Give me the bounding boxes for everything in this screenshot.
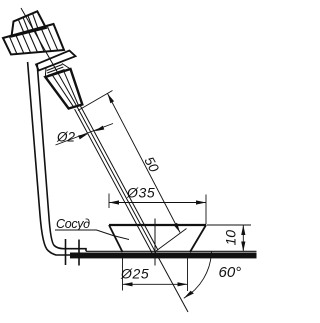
dim Ф25 extension right bbox=[187, 257, 189, 291]
dim 10 line bbox=[242, 225, 244, 252]
dim 10 arrow bottom bbox=[241, 242, 245, 252]
flame jet left edge bbox=[75, 109, 153, 253]
dim 10 arrow top bbox=[241, 225, 245, 235]
dim 10 extension bbox=[207, 224, 251, 226]
nozzle cone bbox=[45, 69, 82, 109]
svg-text:Ø2: Ø2 bbox=[56, 130, 76, 145]
svg-text:60°: 60° bbox=[219, 264, 242, 281]
flange nut bbox=[36, 51, 76, 71]
dim Ф35 line bbox=[109, 202, 206, 204]
tube joint tick right bbox=[78, 240, 80, 266]
barrel knurling bbox=[9, 26, 57, 54]
tube joint tick left bbox=[65, 239, 67, 265]
gas supply tube outer wall bbox=[28, 62, 71, 255]
dim 50 line bbox=[108, 94, 181, 233]
gas supply tube inner wall bbox=[37, 65, 86, 252]
dim 50 extension upper bbox=[78, 91, 113, 111]
dim Ф35 arrow left bbox=[109, 200, 119, 204]
svg-text:Ø35: Ø35 bbox=[126, 185, 155, 201]
dim Ф35 extension left bbox=[108, 194, 110, 209]
svg-text:Ø25: Ø25 bbox=[120, 266, 149, 282]
dim 50 arrow upper bbox=[108, 94, 115, 104]
threaded neck bbox=[45, 64, 70, 78]
nozzle bore lines bbox=[53, 72, 79, 107]
label leader line bbox=[55, 230, 129, 240]
vessel right wall bbox=[190, 225, 206, 252]
base plate top edge bbox=[86, 250, 257, 252]
dim Ф25 arrow right bbox=[178, 282, 188, 286]
dim Ф2 line bbox=[56, 124, 114, 146]
burner barrel block bbox=[3, 24, 64, 55]
dim 60deg arc bbox=[184, 252, 212, 299]
dim Ф2 arrow right bbox=[95, 126, 105, 132]
dim Ф25 arrow left bbox=[123, 282, 133, 286]
vessel left wall bbox=[109, 225, 123, 252]
burner head block bbox=[12, 11, 47, 36]
dim 50 extension lower bbox=[156, 229, 187, 252]
dim Ф35 arrow right bbox=[196, 200, 206, 204]
dim Ф35 extension right bbox=[205, 195, 207, 225]
dim Ф25 line bbox=[123, 283, 188, 285]
base plate body bbox=[70, 253, 257, 259]
vessel vertical centerline bbox=[154, 219, 156, 266]
svg-text:10: 10 bbox=[223, 230, 239, 246]
head block knurling bbox=[18, 13, 38, 33]
dim 50 arrow lower bbox=[173, 223, 180, 233]
dim Ф2 arrow left bbox=[78, 134, 88, 140]
dim 60deg arrow bbox=[184, 291, 194, 299]
svg-text:Сосуд: Сосуд bbox=[56, 217, 90, 231]
dim Ф25 extension left bbox=[122, 255, 124, 291]
vessel top edge bbox=[109, 224, 206, 226]
flame jet right edge bbox=[80, 106, 157, 250]
burner axis centerline bbox=[21, 8, 188, 312]
